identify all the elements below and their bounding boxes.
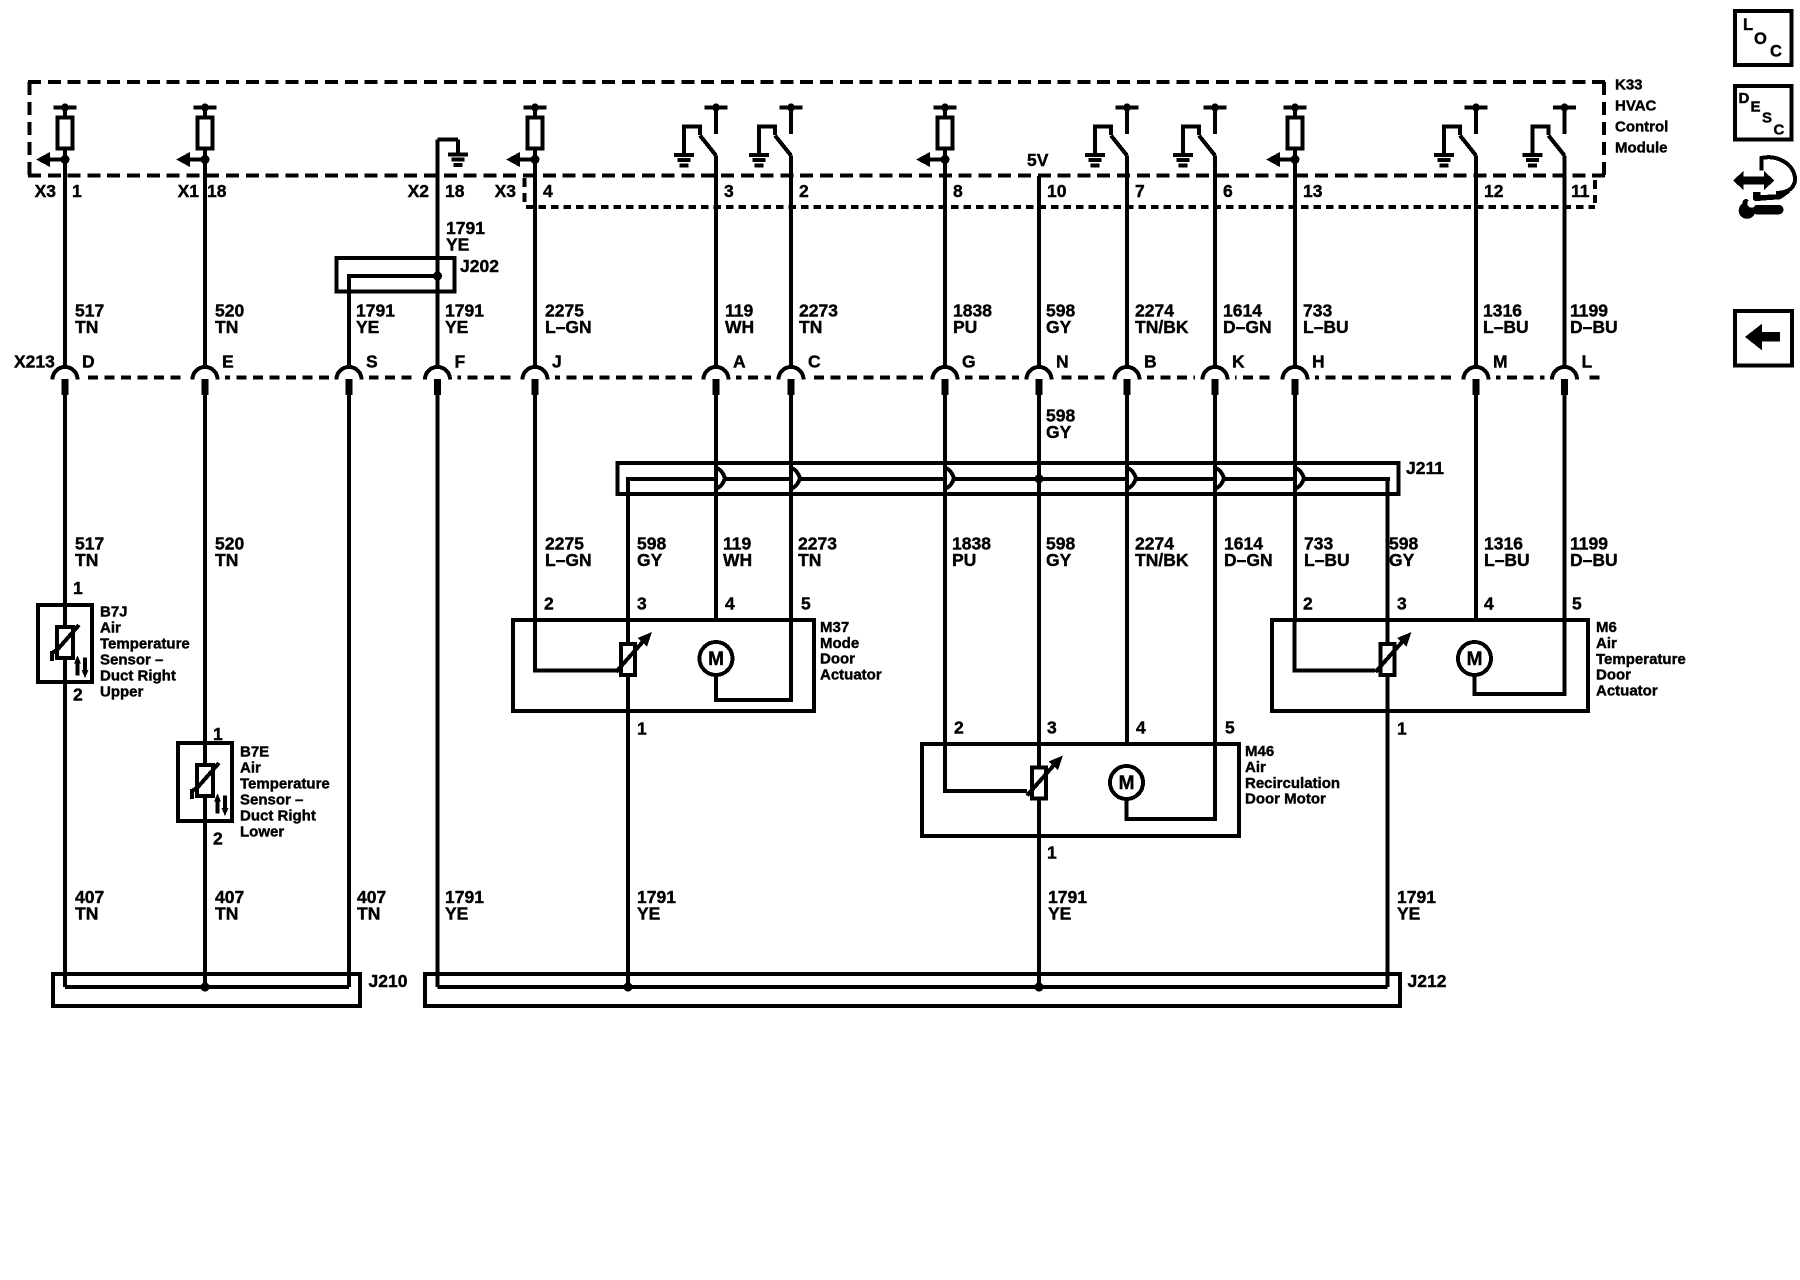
wire label 1614 D–GN row2 — [1224, 534, 1273, 571]
svg-text:YE: YE — [356, 317, 379, 337]
motor M37 — [700, 642, 733, 675]
X213 connector pin S — [329, 367, 369, 395]
svg-text:L–GN: L–GN — [545, 317, 592, 337]
X213 connector pin A — [696, 367, 736, 395]
svg-text:D–GN: D–GN — [1224, 550, 1273, 570]
LOC navigation box icon — [1735, 11, 1792, 65]
wire label 1791 YE above J202 — [446, 218, 485, 255]
wire label 598 GY row2 — [1046, 534, 1075, 571]
svg-text:E: E — [1751, 99, 1761, 116]
svg-text:M46: M46 — [1245, 743, 1274, 760]
svg-text:4: 4 — [543, 181, 553, 201]
module pin 3 switch: internal switch to ground — [674, 104, 728, 166]
wire label 1838 PU — [953, 301, 992, 338]
wire label 1791 YE row3 — [1048, 887, 1087, 924]
svg-text:18: 18 — [445, 181, 465, 201]
svg-text:TN: TN — [357, 904, 380, 924]
module pin X3-1 output: internal T-bar, fuse element and left arrow — [36, 104, 77, 168]
svg-text:5: 5 — [1572, 594, 1582, 614]
svg-text:1: 1 — [72, 181, 82, 201]
J211 splice pass-through chevron — [717, 468, 725, 488]
J202 splice pack — [337, 258, 455, 292]
M37 motor return wire to pin 5 — [716, 620, 791, 700]
svg-text:B: B — [1144, 352, 1157, 372]
svg-text:PU: PU — [953, 317, 977, 337]
wire 2275 L-GN below X213 (J) — [533, 394, 537, 620]
wire 1316 L-BU below X213 (M) — [1474, 394, 1478, 620]
potentiometer wiper M37 — [616, 632, 652, 675]
svg-text:4: 4 — [1484, 594, 1494, 614]
wire 407 TN below X213 (S) — [347, 394, 351, 987]
svg-text:N: N — [1056, 352, 1069, 372]
svg-text:2: 2 — [1303, 594, 1313, 614]
svg-text:3: 3 — [724, 181, 734, 201]
svg-text:C: C — [1770, 43, 1782, 61]
svg-text:TN: TN — [75, 904, 98, 924]
svg-text:YE: YE — [637, 904, 660, 924]
svg-text:S: S — [366, 352, 378, 372]
svg-text:D–BU: D–BU — [1570, 550, 1618, 570]
svg-text:8: 8 — [953, 181, 963, 201]
svg-text:Air: Air — [240, 760, 261, 777]
wire 1791 YE from X2-18 ground — [436, 140, 440, 369]
wire 2274 TN/BK from pin 7 — [1125, 156, 1129, 369]
wire label 517 TN row2 — [75, 534, 104, 571]
M37 label — [820, 619, 882, 683]
svg-text:TN/BK: TN/BK — [1135, 317, 1189, 337]
J210 splice pack — [53, 974, 360, 1006]
module pin 8 output: internal T-bar, fuse element and left arrow — [916, 104, 957, 168]
X213 connector pin D — [45, 367, 85, 395]
wire 1199 D-BU below X213 (L) — [1563, 394, 1567, 620]
svg-text:D: D — [82, 352, 95, 372]
svg-text:M: M — [708, 649, 724, 670]
svg-text:M: M — [1119, 773, 1135, 794]
J211 internal 598 GY bus bar — [626, 477, 1390, 481]
svg-text:L–GN: L–GN — [545, 550, 592, 570]
svg-text:M6: M6 — [1596, 619, 1617, 636]
svg-text:TN: TN — [798, 550, 821, 570]
svg-text:13: 13 — [1303, 181, 1323, 201]
M6 wire through pot down to pin 1 — [1386, 620, 1390, 987]
module pin 2 switch: internal switch to ground — [749, 104, 803, 166]
svg-text:TN: TN — [75, 550, 98, 570]
X213 connector pin C — [771, 367, 811, 395]
svg-text:TN: TN — [215, 904, 238, 924]
svg-text:1: 1 — [213, 724, 223, 744]
svg-text:YE: YE — [445, 904, 468, 924]
svg-text:5V: 5V — [1027, 150, 1049, 170]
svg-text:TN: TN — [215, 550, 238, 570]
wire 733 L-BU below X213 (H) — [1293, 394, 1297, 620]
svg-text:Duct Right: Duct Right — [100, 668, 176, 685]
svg-text:G: G — [962, 352, 976, 372]
svg-text:YE: YE — [445, 317, 468, 337]
svg-text:C: C — [1774, 122, 1785, 139]
svg-text:12: 12 — [1484, 181, 1504, 201]
svg-text:J202: J202 — [460, 256, 499, 276]
svg-text:YE: YE — [446, 235, 469, 255]
module pin X1-18 output: internal T-bar, fuse element and left arrow — [176, 104, 217, 168]
svg-text:11: 11 — [1571, 181, 1590, 201]
svg-text:TN/BK: TN/BK — [1135, 550, 1189, 570]
wire 1614 D-GN from pin 6 — [1213, 156, 1217, 369]
wire label 2274 TN/BK — [1135, 301, 1189, 338]
M6 motor return wire to pin 5 — [1475, 620, 1565, 694]
svg-text:1: 1 — [1397, 719, 1407, 739]
X213 connector pin L — [1545, 367, 1585, 395]
J211 splice pass-through chevron — [946, 468, 954, 488]
svg-text:GY: GY — [637, 550, 663, 570]
M37 Mode Door Actuator box — [513, 620, 814, 711]
svg-text:Control: Control — [1615, 119, 1668, 136]
motor M46 — [1110, 766, 1143, 799]
X213 inline connector dotted line — [55, 375, 1600, 379]
potentiometer wiper M46 — [1027, 756, 1063, 799]
svg-text:6: 6 — [1223, 181, 1233, 201]
wire 2275 L-GN from X3-4 — [533, 149, 537, 369]
svg-text:1: 1 — [1047, 843, 1057, 863]
module pin numbers row — [35, 181, 1590, 201]
module pin X2-18 internal ground — [438, 140, 469, 166]
svg-text:3: 3 — [1397, 594, 1407, 614]
svg-text:YE: YE — [1048, 904, 1071, 924]
svg-text:2: 2 — [954, 718, 964, 738]
wire 2274 TN/BK below X213 (B) — [1125, 394, 1129, 744]
svg-text:B7J: B7J — [100, 604, 128, 621]
wire label 119 WH row2 — [723, 534, 752, 571]
wire label 119 WH — [725, 301, 754, 338]
svg-text:YE: YE — [1397, 904, 1420, 924]
svg-text:B7E: B7E — [240, 744, 269, 761]
svg-text:M37: M37 — [820, 619, 849, 636]
svg-text:18: 18 — [207, 181, 227, 201]
module pin 13 output: internal T-bar, fuse element and left arrow — [1266, 104, 1307, 168]
wire label 1791 YE — [356, 301, 395, 338]
schematic navigation arrow-wrench icon — [1733, 157, 1795, 219]
svg-text:E: E — [222, 352, 234, 372]
motor M6 — [1458, 642, 1491, 675]
wire label 2274 TN/BK row2 — [1135, 534, 1189, 571]
svg-text:Air: Air — [1245, 759, 1266, 776]
svg-text:Module: Module — [1615, 140, 1668, 157]
X213 connector pin G — [925, 367, 965, 395]
wire 1791 YE below X213 (F) — [436, 394, 440, 987]
svg-text:Air: Air — [100, 620, 121, 637]
wire 520 TN from X1-18 — [203, 149, 207, 369]
wire 1614 D-GN below X213 (K) — [1213, 394, 1217, 744]
M6 label — [1596, 619, 1686, 700]
svg-text:D–BU: D–BU — [1570, 317, 1618, 337]
X213 connector pin J — [515, 367, 555, 395]
svg-text:M: M — [1493, 352, 1508, 372]
svg-text:2: 2 — [544, 594, 554, 614]
svg-text:TN: TN — [75, 317, 98, 337]
J211 splice pass-through chevron — [792, 468, 800, 488]
svg-text:Recirculation: Recirculation — [1245, 775, 1340, 792]
wire label 407 TN row3 — [75, 887, 104, 924]
svg-text:X213: X213 — [14, 352, 55, 372]
wire 598 GY drop from J211 to M6 pin 3 — [1386, 478, 1390, 620]
B7E Air Temperature Sensor - Duct Right Lower box — [178, 743, 232, 821]
svg-text:A: A — [733, 352, 746, 372]
X3 connector strip dashed outline — [525, 178, 1596, 207]
wire 2273 TN below X213 (C) — [789, 394, 793, 620]
X213 connector pin H — [1275, 367, 1315, 395]
wire label 598 GY — [1046, 301, 1075, 338]
wire label 1791 YE row3 — [1397, 887, 1436, 924]
wire label 1614 D–GN — [1223, 301, 1272, 338]
module pin 11 switch: internal switch to ground — [1523, 104, 1577, 166]
wire label 517 TN — [75, 301, 104, 338]
X213 connector pin K — [1195, 367, 1235, 395]
J211 splice pass-through chevron — [1216, 468, 1224, 488]
svg-text:L: L — [1743, 16, 1753, 34]
wire label 407 TN row3 — [215, 887, 244, 924]
svg-text:GY: GY — [1389, 550, 1415, 570]
svg-text:Door: Door — [820, 651, 855, 668]
X213 cavity letters — [82, 352, 1593, 372]
svg-text:L–BU: L–BU — [1303, 317, 1349, 337]
svg-text:Duct Right: Duct Right — [240, 808, 316, 825]
svg-text:D: D — [1739, 90, 1750, 107]
svg-text:GY: GY — [1046, 422, 1072, 442]
svg-text:Sensor –: Sensor – — [100, 652, 163, 669]
wire label 1791 YE row3 — [637, 887, 676, 924]
wire 119 WH below X213 (A) — [714, 394, 718, 620]
wire label 733 L–BU — [1303, 301, 1349, 338]
svg-text:Temperature: Temperature — [100, 636, 190, 653]
wire label 1199 D–BU row2 — [1570, 534, 1618, 571]
X213 connector pin B — [1107, 367, 1147, 395]
M6 pin numbers — [1303, 594, 1582, 614]
svg-text:10: 10 — [1047, 181, 1067, 201]
thermistor element B7E — [192, 763, 228, 816]
wire 733 L-BU from pin 13 — [1293, 149, 1297, 369]
wire label 2273 TN — [799, 301, 838, 338]
svg-text:5: 5 — [801, 594, 811, 614]
svg-text:Upper: Upper — [100, 684, 144, 701]
svg-text:4: 4 — [1136, 718, 1146, 738]
DESC navigation box icon — [1735, 86, 1792, 140]
thermistor element B7J — [52, 625, 88, 678]
M46 pin numbers — [954, 718, 1235, 738]
svg-text:J210: J210 — [369, 971, 408, 991]
M46 Air Recirculation Door Motor box — [922, 744, 1239, 836]
svg-text:7: 7 — [1135, 181, 1145, 201]
wire label 1791 YE row3 — [445, 887, 484, 924]
svg-text:5: 5 — [1225, 718, 1235, 738]
svg-text:Door: Door — [1596, 667, 1631, 684]
wire label 1791 YE — [445, 301, 484, 338]
K33 HVAC Control Module dashed outline box — [28, 82, 1606, 176]
X213 connector pin N — [1019, 367, 1059, 395]
wire label 1316 L–BU row2 — [1484, 534, 1530, 571]
wire 1791 YE splice drop from J202 — [347, 290, 351, 368]
module pin 7 switch: internal switch to ground — [1085, 104, 1139, 166]
svg-text:HVAC: HVAC — [1615, 98, 1657, 115]
wire 517 TN from X3-1 — [63, 149, 67, 369]
svg-text:2: 2 — [73, 685, 83, 705]
M37 wire through pot down to pin 1 — [626, 620, 630, 987]
wire 598 GY 5V feed from pin 10 — [1037, 176, 1041, 368]
B7J Air Temperature Sensor - Duct Right Upper box — [38, 605, 92, 682]
potentiometer wiper M6 — [1376, 632, 1412, 675]
X213 connector pin E — [185, 367, 225, 395]
M37 pin 2 internal feed wire — [535, 620, 617, 671]
M46 label — [1245, 743, 1340, 808]
wire label 520 TN — [215, 301, 244, 338]
svg-text:4: 4 — [725, 594, 735, 614]
svg-text:Lower: Lower — [240, 824, 284, 841]
wire 520/407 TN below X213 (E) — [203, 394, 207, 987]
wire 1316 L-BU from pin 12 — [1474, 156, 1478, 369]
svg-text:GY: GY — [1046, 317, 1072, 337]
M46 pin 2 internal feed wire — [945, 744, 1027, 791]
svg-text:2: 2 — [213, 829, 223, 849]
wire label 598 GY above J211 — [1046, 406, 1075, 443]
svg-text:1: 1 — [637, 719, 647, 739]
wire label 1199 D–BU — [1570, 301, 1618, 338]
svg-text:GY: GY — [1046, 550, 1072, 570]
svg-text:WH: WH — [723, 550, 752, 570]
wire label 520 TN row2 — [215, 534, 244, 571]
wire 1838 PU below X213 (G) — [943, 394, 947, 744]
svg-text:TN: TN — [799, 317, 822, 337]
svg-text:J211: J211 — [1406, 458, 1444, 478]
svg-text:3: 3 — [637, 594, 647, 614]
wire label 2273 TN row2 — [798, 534, 837, 571]
wire 517/407 TN below X213 (D) — [63, 394, 67, 987]
back arrow navigation box icon — [1735, 311, 1792, 366]
wire 598 GY below X213 (N) through M46 — [1037, 394, 1041, 987]
svg-text:J212: J212 — [1408, 971, 1447, 991]
svg-text:J: J — [552, 352, 562, 372]
X213 connector pin F — [418, 367, 458, 395]
module pin 6 switch: internal switch to ground — [1173, 104, 1227, 166]
B7J label — [100, 604, 190, 701]
svg-text:X2: X2 — [408, 181, 430, 201]
module pin X3-4 output: internal T-bar, fuse element and left arrow — [506, 104, 547, 168]
svg-text:L–BU: L–BU — [1484, 550, 1530, 570]
X213 connector pin M — [1456, 367, 1496, 395]
svg-text:PU: PU — [952, 550, 976, 570]
svg-text:X1: X1 — [178, 181, 200, 201]
svg-text:K: K — [1232, 352, 1245, 372]
J211 bus junction with 5V 598 GY wire (node N) — [1035, 474, 1044, 483]
svg-text:F: F — [455, 352, 466, 372]
M37 pin numbers — [544, 594, 811, 614]
wire label 598 GY row2 — [637, 534, 666, 571]
B7E label — [240, 744, 330, 841]
svg-text:3: 3 — [1047, 718, 1057, 738]
svg-text:Temperature: Temperature — [1596, 651, 1686, 668]
wire 2273 TN from pin 2 — [789, 156, 793, 369]
K33 HVAC Control Module label — [1615, 77, 1668, 157]
M46 motor return wire to pin 5 — [1127, 744, 1216, 819]
wire label 2275 L–GN row2 — [545, 534, 592, 571]
svg-text:C: C — [808, 352, 821, 372]
svg-text:L–BU: L–BU — [1483, 317, 1529, 337]
svg-text:Door Motor: Door Motor — [1245, 791, 1326, 808]
svg-text:Temperature: Temperature — [240, 776, 330, 793]
J211 splice pack outline — [618, 463, 1399, 494]
J211 splice pass-through chevron — [1296, 468, 1304, 488]
J212 splice pack — [425, 974, 1400, 1006]
svg-text:D–GN: D–GN — [1223, 317, 1272, 337]
svg-text:X3: X3 — [495, 181, 517, 201]
wire 1838 PU from pin 8 — [943, 149, 947, 369]
wire label 2275 L–GN — [545, 301, 592, 338]
wire 598 GY drop from J211 to M37 pin 3 — [626, 478, 630, 620]
wire label 1316 L–BU — [1483, 301, 1529, 338]
svg-text:X3: X3 — [35, 181, 57, 201]
svg-text:Sensor –: Sensor – — [240, 792, 303, 809]
wire label 733 L–BU row2 — [1304, 534, 1350, 571]
wire 1199 D-BU from pin 11 — [1563, 156, 1567, 369]
svg-text:Actuator: Actuator — [1596, 683, 1658, 700]
M6 pin 2 internal feed wire — [1295, 620, 1376, 671]
svg-text:M: M — [1467, 649, 1483, 670]
svg-text:TN: TN — [215, 317, 238, 337]
wire label 1838 PU row2 — [952, 534, 991, 571]
svg-text:WH: WH — [725, 317, 754, 337]
wire 119 WH from pin 3 — [714, 156, 718, 369]
M6 Air Temperature Door Actuator box — [1272, 620, 1588, 711]
svg-text:O: O — [1754, 30, 1767, 48]
svg-text:L–BU: L–BU — [1304, 550, 1350, 570]
svg-text:Air: Air — [1596, 635, 1617, 652]
wire label 407 TN row3 — [357, 887, 386, 924]
wire label 598 GY row2 — [1389, 534, 1418, 571]
svg-text:H: H — [1312, 352, 1325, 372]
svg-text:L: L — [1582, 352, 1593, 372]
svg-text:K33: K33 — [1615, 77, 1643, 94]
J211 splice pass-through chevron — [1128, 468, 1136, 488]
svg-text:Mode: Mode — [820, 635, 859, 652]
svg-text:S: S — [1762, 110, 1772, 127]
svg-text:Actuator: Actuator — [820, 666, 882, 683]
svg-text:1: 1 — [73, 578, 83, 598]
module pin 12 switch: internal switch to ground — [1434, 104, 1488, 166]
svg-text:2: 2 — [799, 181, 809, 201]
